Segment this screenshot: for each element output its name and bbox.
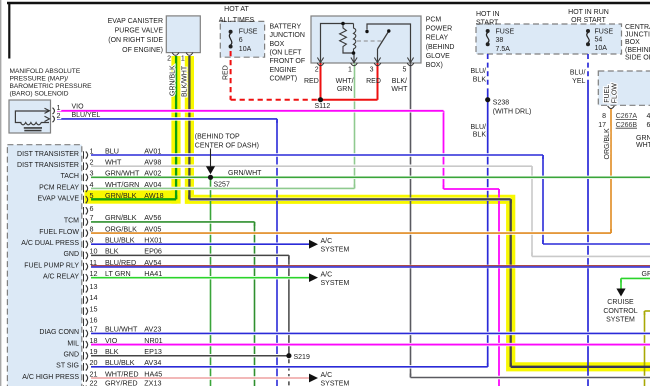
svg-text:ORG/BLK: ORG/BLK (604, 128, 611, 159)
svg-text:ORG/BLK: ORG/BLK (105, 224, 137, 233)
svg-text:BOX: BOX (625, 39, 640, 46)
PCM pin 14 (84, 296, 88, 304)
wire LT GRN HA41 row (91, 276, 309, 279)
svg-text:FRONT OF: FRONT OF (270, 58, 306, 65)
wire BLK/WHT highlighted bottom exit right (511, 366, 650, 368)
S257 pointer line (210, 149, 212, 168)
svg-text:18: 18 (90, 336, 98, 345)
svg-text:12: 12 (90, 269, 98, 278)
svg-text:TCM: TCM (64, 218, 79, 225)
wire VIO jog (444, 187, 500, 190)
svg-text:GRN: GRN (642, 271, 650, 278)
svg-text:AV34: AV34 (144, 358, 161, 367)
svg-text:A/C: A/C (321, 271, 333, 278)
wire BLU/BLK dashed below fuse 38 (487, 54, 489, 93)
svg-text:VIO: VIO (72, 104, 85, 111)
wire LT GRN drop to cruise control arrow (620, 278, 622, 289)
svg-text:20: 20 (90, 358, 98, 367)
relay pin 2 (317, 63, 324, 66)
svg-text:(BEHIND: (BEHIND (625, 47, 650, 54)
svg-text:SIDE OF: SIDE OF (625, 54, 650, 61)
svg-text:GRN: GRN (337, 86, 353, 93)
MAP solenoid core bars (24, 127, 42, 129)
wire BLU/BLK vertical through S238 to AV34 row (487, 93, 489, 367)
svg-text:BOX): BOX) (426, 62, 443, 69)
PCM pin 6 (84, 207, 88, 215)
svg-text:PCM RELAY: PCM RELAY (39, 184, 79, 191)
svg-text:FUSE: FUSE (239, 29, 258, 36)
wire BLU/YEL from MAP pin2 (57, 117, 277, 120)
svg-text:17: 17 (598, 122, 606, 129)
svg-text:WHT/: WHT/ (336, 78, 354, 85)
svg-text:AV54: AV54 (144, 258, 161, 267)
A/C system arrow pin 9 (309, 240, 318, 249)
page corner border vertical (8, 3, 10, 59)
svg-text:BLU/: BLU/ (470, 68, 486, 75)
fuse F54 symbol (586, 29, 590, 33)
wire BLK/WHT highlighted vertical from EVAP pin1 (188, 56, 190, 199)
wire GRN/WHT AV02 row (91, 176, 650, 179)
PCM pin 13 (84, 285, 88, 293)
svg-text:SYSTEM: SYSTEM (321, 380, 350, 386)
svg-text:EVAP VALVE: EVAP VALVE (37, 195, 79, 202)
svg-text:6: 6 (90, 204, 94, 213)
svg-text:S112: S112 (315, 103, 331, 110)
wire YEL/GRN entry bottom right (645, 309, 650, 312)
svg-text:HOT IN RUN: HOT IN RUN (568, 9, 609, 16)
EVAP pin 1 (186, 53, 193, 56)
PCM pin 5 (84, 196, 88, 204)
svg-text:8: 8 (90, 224, 94, 233)
svg-text:HOT IN: HOT IN (476, 11, 500, 18)
PCM connector box (7, 145, 81, 386)
svg-text:6: 6 (647, 122, 650, 129)
svg-text:19: 19 (90, 347, 98, 356)
cruise control arrow (616, 289, 625, 297)
wire BLK/WHT bottom exit right (411, 376, 650, 379)
fuel flow sender box (598, 71, 650, 105)
wire VIO vertical to bottom edge (498, 189, 500, 386)
svg-text:AV02: AV02 (144, 169, 161, 178)
wire RED relay pin3 to S112 (377, 63, 379, 100)
svg-text:GND: GND (63, 251, 79, 258)
svg-text:A/C DUAL PRESS: A/C DUAL PRESS (21, 240, 79, 247)
svg-text:EVAP CANISTER: EVAP CANISTER (108, 18, 163, 25)
wire WHT AV98 exit right (532, 255, 650, 258)
svg-text:DIST TRANSISTER: DIST TRANSISTER (17, 151, 79, 158)
wire BLK/WHT highlighted vertical segment at x510 (510, 199, 512, 366)
wire BLK dashed continuation below S219 (288, 359, 290, 386)
svg-text:FLOW: FLOW (611, 83, 618, 104)
svg-text:HA45: HA45 (144, 369, 162, 378)
relay actuator dashed link (357, 40, 382, 42)
svg-text:FUEL FLOW: FUEL FLOW (39, 229, 79, 236)
wire BLU AV01 row (91, 153, 543, 156)
PCM pin 4 (84, 185, 88, 193)
svg-text:JUNCTION: JUNCTION (625, 32, 650, 39)
svg-text:JUNCTION: JUNCTION (270, 32, 305, 39)
wire WHT/GRN vertical from relay pin1 (354, 63, 356, 189)
wire WHT AV98 row (91, 164, 532, 167)
PCM pin 3 (84, 174, 88, 182)
wire WHT/RED HA45 row (91, 376, 309, 379)
PCM power relay box U1 (311, 16, 421, 63)
central junction box (fuses 38/54) (476, 24, 622, 54)
svg-text:14: 14 (90, 293, 98, 302)
EVAP canister purge valve box (166, 16, 200, 53)
svg-text:(WITH DRL): (WITH DRL) (493, 109, 532, 116)
svg-text:OR START: OR START (571, 17, 606, 24)
svg-text:2: 2 (315, 67, 319, 74)
svg-text:1: 1 (181, 55, 185, 62)
highlight band BLK/WHT (EVAP pin1 right and down to bottom right) (189, 56, 650, 367)
MAP solenoid coil symbol (15, 111, 49, 123)
svg-text:FUEL PUMP RLY: FUEL PUMP RLY (24, 262, 79, 269)
svg-text:2: 2 (167, 55, 171, 62)
svg-text:S219: S219 (294, 354, 310, 361)
relay pin 3 (374, 63, 381, 66)
PCM pin 19 (84, 352, 88, 360)
svg-text:1: 1 (90, 146, 94, 155)
svg-text:BLK: BLK (105, 247, 119, 256)
PCM pin 7 (84, 218, 88, 226)
PCM pin 12 (84, 274, 88, 282)
svg-text:A/C RELAY: A/C RELAY (43, 273, 79, 280)
svg-text:GRN/WHT: GRN/WHT (228, 170, 262, 177)
wire GRN/BLK AV56 vertical (254, 222, 256, 386)
svg-text:GND: GND (63, 352, 79, 359)
svg-text:BLU/: BLU/ (570, 70, 586, 77)
MAP pin arrows (45, 108, 50, 113)
node S219 (286, 353, 291, 358)
svg-text:SYSTEM: SYSTEM (606, 317, 635, 324)
svg-text:START: START (476, 19, 499, 26)
svg-text:RED: RED (366, 78, 381, 85)
svg-text:BLK/: BLK/ (392, 78, 407, 85)
wire YEL/GRN vertical at bottom right (644, 311, 646, 386)
svg-text:COMPT): COMPT) (270, 75, 298, 82)
svg-text:22: 22 (90, 379, 98, 386)
PCM pin 11 (84, 263, 88, 271)
svg-text:SYSTEM: SYSTEM (321, 280, 350, 287)
svg-text:CENTRAL: CENTRAL (625, 24, 650, 31)
svg-text:CONTROL: CONTROL (603, 308, 637, 315)
wire RED dashed below fuse 6 (230, 51, 232, 100)
svg-text:FUEL: FUEL (604, 85, 611, 103)
svg-text:BLK/WHT: BLK/WHT (182, 65, 189, 97)
svg-text:EP06: EP06 (144, 247, 162, 256)
svg-text:54: 54 (595, 37, 603, 44)
svg-text:HX01: HX01 (144, 236, 162, 245)
wire LT GRN cruise control entry (621, 277, 650, 280)
svg-text:4: 4 (647, 113, 650, 120)
wire VIO NR01 row (91, 343, 650, 346)
svg-text:16: 16 (90, 315, 98, 324)
svg-text:RED: RED (222, 65, 229, 80)
svg-text:A/C: A/C (321, 372, 333, 379)
svg-text:BLU/: BLU/ (470, 124, 486, 131)
PCM pin 20 (84, 363, 88, 371)
svg-text:(ON RIGHT SIDE: (ON RIGHT SIDE (108, 37, 163, 44)
svg-text:11: 11 (90, 258, 97, 267)
battery junction box (fuse 6) (220, 21, 264, 57)
wire BLK/WHT highlighted horizontal (189, 198, 510, 201)
S257 pointer arrow (206, 166, 215, 174)
svg-text:7.5A: 7.5A (496, 46, 511, 53)
svg-text:(BARO) SOLENOID: (BARO) SOLENOID (10, 91, 69, 98)
svg-text:NR01: NR01 (144, 336, 162, 345)
svg-text:(ON LEFT: (ON LEFT (270, 49, 303, 56)
svg-text:AV23: AV23 (144, 325, 161, 334)
svg-text:BOX: BOX (270, 41, 285, 48)
fuse F38 symbol (486, 29, 490, 33)
svg-text:AV01: AV01 (144, 146, 161, 155)
svg-text:ZX13: ZX13 (144, 379, 161, 386)
svg-text:13: 13 (90, 282, 98, 291)
svg-text:HA41: HA41 (144, 269, 162, 278)
PCM pin 15 (84, 307, 88, 315)
page left edge (0, 0, 2, 386)
PCM pin 17 (84, 330, 88, 338)
MAP/BARO solenoid box (9, 100, 51, 133)
svg-text:POWER: POWER (426, 26, 452, 33)
svg-text:BLU: BLU (105, 146, 119, 155)
svg-text:BLK: BLK (473, 132, 487, 139)
svg-text:MIL: MIL (67, 340, 79, 347)
relay pin 1 (351, 63, 358, 66)
svg-text:GRN/BLK: GRN/BLK (105, 213, 137, 222)
wire RED relay pin2 to S112 (320, 63, 322, 100)
svg-text:HOT AT: HOT AT (224, 6, 249, 13)
svg-text:PCM: PCM (426, 17, 442, 24)
wire BLK/WHT vertical from relay pin5 (410, 63, 412, 378)
svg-text:GRY/RED: GRY/RED (105, 379, 138, 386)
svg-text:9: 9 (90, 236, 94, 245)
svg-text:TACH: TACH (60, 173, 79, 180)
svg-text:A/C: A/C (321, 238, 333, 245)
PCM pin 22 (84, 385, 88, 386)
svg-text:1: 1 (348, 67, 352, 74)
wire GRN/WHT branch from S257 down (210, 177, 212, 386)
svg-text:GRN/WHT: GRN/WHT (105, 169, 140, 178)
svg-text:15: 15 (90, 304, 98, 313)
relay switch (367, 24, 411, 63)
wire BLU AV01 exit right (543, 242, 650, 245)
relay pin arrowheads (317, 58, 323, 63)
wire VIO vertical from MAP pin1 run (443, 111, 445, 189)
wire VIO from MAP pin1 (57, 109, 444, 112)
svg-text:3: 3 (370, 67, 374, 74)
svg-text:10A: 10A (239, 46, 252, 53)
wire BLU AV01 vertical (542, 155, 544, 244)
svg-text:RED: RED (304, 78, 319, 85)
svg-text:17: 17 (90, 325, 98, 334)
svg-text:5: 5 (403, 67, 407, 74)
PCM pin 21 (84, 374, 88, 382)
svg-text:SYSTEM: SYSTEM (321, 247, 350, 254)
svg-text:VIO: VIO (105, 336, 118, 345)
wire BLK EP13 row to S219 (91, 354, 289, 357)
svg-text:PRESSURE (MAP)/: PRESSURE (MAP)/ (10, 76, 69, 83)
svg-text:FUSE: FUSE (496, 29, 515, 36)
wire corner joints (443, 185, 445, 189)
svg-text:ST SIG: ST SIG (56, 363, 79, 370)
svg-text:5: 5 (90, 191, 94, 200)
MAP pin 2 (53, 116, 55, 122)
wire WHT AV98 vertical (531, 166, 533, 256)
svg-text:10A: 10A (595, 45, 608, 52)
relay coil + resistor (321, 24, 354, 64)
svg-text:AV98: AV98 (144, 157, 161, 166)
PCM pin 9 (84, 240, 88, 248)
svg-text:BLU/WHT: BLU/WHT (105, 325, 138, 334)
svg-text:GRN/BLK: GRN/BLK (105, 191, 137, 200)
svg-text:3: 3 (90, 169, 94, 178)
svg-text:RELAY: RELAY (426, 35, 449, 42)
svg-text:CRUISE: CRUISE (607, 299, 634, 306)
svg-text:BAROMETRIC PRESSURE: BAROMETRIC PRESSURE (10, 83, 93, 90)
svg-text:BLU/BLK: BLU/BLK (105, 358, 135, 367)
PCM pin 18 (84, 341, 88, 349)
svg-text:A/C HIGH PRESS: A/C HIGH PRESS (22, 374, 79, 381)
svg-text:(BEHIND TOP: (BEHIND TOP (195, 133, 240, 140)
svg-text:AV05: AV05 (144, 224, 161, 233)
svg-text:AW18: AW18 (144, 191, 163, 200)
svg-text:YEL: YEL (572, 78, 585, 85)
svg-text:DIST TRANSISTER: DIST TRANSISTER (17, 162, 79, 169)
wire BLU/YEL vertical from MAP pin2 (276, 119, 278, 386)
highlight band GRN/BLK AW18 (EVAP pin2 to PCM pin5) (85, 190, 178, 203)
svg-text:MANIFOLD ABSOLUTE: MANIFOLD ABSOLUTE (10, 68, 81, 75)
page top border (7, 2, 650, 5)
fuel flow sender pin (608, 106, 615, 109)
svg-text:4: 4 (90, 180, 94, 189)
wire WHT/GRN AV04 row (91, 187, 355, 190)
svg-text:WHT: WHT (391, 86, 408, 93)
svg-text:AV56: AV56 (144, 213, 161, 222)
fuse F6 symbol (229, 30, 233, 34)
PCM pin 10 (84, 252, 88, 260)
PCM pin 2 (84, 162, 88, 170)
EVAP pin 2 (172, 53, 179, 56)
svg-text:ENGINE: ENGINE (270, 67, 297, 74)
svg-text:ALL TIMES: ALL TIMES (219, 17, 255, 24)
wire BLK EP06 row (91, 254, 289, 257)
svg-text:21: 21 (90, 369, 98, 378)
wire BLU/BLK AV34 row (91, 365, 488, 368)
svg-text:WHT: WHT (105, 157, 122, 166)
wire BLK EP06 vertical to S219 (288, 255, 290, 355)
svg-text:C266B: C266B (616, 122, 638, 129)
svg-text:BATTERY: BATTERY (270, 24, 302, 31)
MAP pin 1 (53, 108, 55, 114)
svg-text:LT GRN: LT GRN (105, 269, 131, 278)
svg-text:BLK: BLK (473, 76, 487, 83)
svg-text:AV04: AV04 (144, 180, 161, 189)
wire BLU/YEL vertical to bottom edge (587, 84, 589, 386)
wire GRN/BLK AW18 highlighted row (91, 198, 176, 200)
svg-text:WHT: WHT (636, 142, 650, 149)
PCM pin 1 (84, 151, 88, 159)
svg-text:OF ENGINE): OF ENGINE) (122, 47, 163, 54)
svg-text:CENTER OF DASH): CENTER OF DASH) (195, 143, 259, 150)
svg-text:38: 38 (496, 37, 504, 44)
svg-text:6: 6 (239, 37, 243, 44)
A/C system arrow pin 12 (309, 273, 318, 282)
svg-text:GLOVE: GLOVE (426, 53, 450, 60)
svg-text:WHT/GRN: WHT/GRN (105, 180, 139, 189)
svg-text:FUSE: FUSE (595, 28, 614, 35)
wire BLU/BLK HX01 row (91, 242, 309, 245)
svg-text:GRN/: GRN/ (636, 135, 650, 142)
svg-text:BLK: BLK (105, 347, 119, 356)
relay pin 5 (407, 63, 414, 66)
wire BLU/YEL dashed below fuse 54 (587, 54, 589, 84)
wire GRN/BLK highlighted vertical from EVAP pin2 (175, 56, 177, 199)
node S238 (485, 97, 490, 102)
wire ORG/BLK AV05 row (91, 231, 611, 234)
wire ORG/BLK vertical to fuel flow sender (610, 109, 612, 233)
svg-text:BLU/BLK: BLU/BLK (105, 236, 135, 245)
PCM pin 16 (84, 318, 88, 326)
wire GRN/BLK AV56 row (91, 220, 255, 223)
A/C system arrow pin 21 (309, 374, 318, 383)
node S257 (208, 175, 213, 180)
svg-text:S238: S238 (493, 100, 509, 107)
PCM pin 8 (84, 229, 88, 237)
wire BLU/WHT AV23 row (91, 332, 650, 335)
svg-text:BLU/YEL: BLU/YEL (72, 112, 101, 119)
svg-text:EP13: EP13 (144, 347, 162, 356)
svg-text:(BEHIND: (BEHIND (426, 44, 455, 51)
wire RED S112 to relay pin3 (318, 98, 378, 101)
svg-text:DIAG CONN: DIAG CONN (39, 329, 79, 336)
wire BLU/RED AV54 row (91, 266, 650, 267)
svg-text:8: 8 (602, 113, 606, 120)
svg-text:2: 2 (90, 157, 94, 166)
svg-text:WHT/RED: WHT/RED (105, 369, 139, 378)
svg-text:BLU/RED: BLU/RED (105, 258, 136, 267)
svg-text:PURGE VALVE: PURGE VALVE (115, 28, 164, 35)
svg-text:10: 10 (90, 247, 98, 256)
node S112 (318, 97, 323, 102)
wire RED dashed to S112 (231, 98, 318, 101)
svg-text:2: 2 (57, 111, 61, 120)
svg-text:GRN/BLK: GRN/BLK (170, 65, 177, 96)
svg-text:S257: S257 (214, 182, 230, 189)
svg-text:C267A: C267A (616, 113, 638, 120)
svg-text:7: 7 (90, 213, 94, 222)
